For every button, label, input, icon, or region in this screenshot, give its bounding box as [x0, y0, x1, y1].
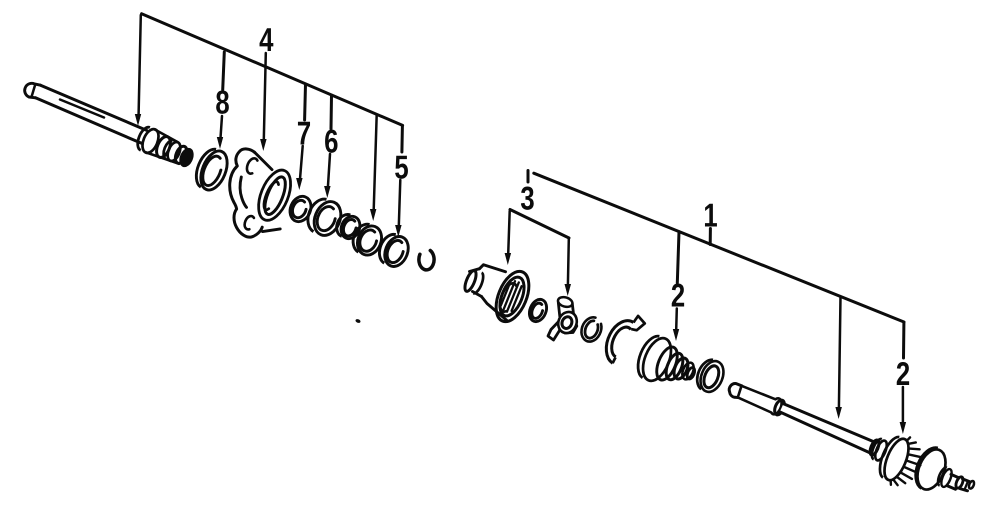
- housing bore inner C: [496, 281, 516, 313]
- axle bar left face: [738, 386, 742, 398]
- damper cluster bottom outline: [146, 152, 179, 163]
- spacer ring: [349, 221, 386, 259]
- washer: [333, 212, 363, 242]
- threaded tip top: [963, 479, 970, 482]
- right callout: tick above label 3: [527, 171, 530, 183]
- stub shaft bottom: [948, 486, 956, 489]
- leader line to label 6: [330, 95, 334, 129]
- stub ring: [954, 476, 964, 489]
- leader line to label 8: [223, 52, 225, 90]
- snap ring 5: [375, 231, 412, 270]
- spider snap ring: [578, 314, 605, 344]
- housing splines: [500, 279, 523, 313]
- shaft tip cap: [25, 83, 41, 97]
- axle bar wide section: [738, 386, 782, 415]
- boot ridge 2: [663, 351, 686, 382]
- leader line to label 7: [303, 84, 307, 120]
- flange to hub top edge: [255, 152, 272, 169]
- outer joint tooth band: [875, 434, 913, 484]
- joint neck ring: [936, 466, 954, 488]
- leader from diagonal to left label 2: [677, 232, 679, 283]
- arrow from bracket to CV housing: [508, 211, 510, 254]
- shaft tip step: [32, 85, 36, 97]
- long diagonal leader for label 1: [534, 173, 904, 322]
- bearing ring 8: [191, 145, 232, 193]
- boot ridge 3: [671, 356, 690, 381]
- arrow from diagonal to axle bar: [839, 297, 841, 408]
- flange plate outline: [230, 149, 262, 237]
- flange hub bore: [261, 174, 290, 217]
- arrow from 6 to ring: [328, 154, 330, 187]
- flange top ear hole: [245, 157, 258, 175]
- flange bore inner C: [261, 180, 279, 211]
- housing stub lip: [473, 273, 485, 295]
- joint collar: [868, 439, 880, 456]
- seal ring 7: [286, 193, 314, 225]
- shaft dynamic damper ring 2: [154, 135, 173, 160]
- boot ridge 1: [653, 344, 682, 383]
- label 2 (outer joint): [897, 362, 909, 385]
- housing mouth: [490, 267, 536, 327]
- flange hub face: [252, 166, 297, 225]
- leader from diagonal end to right label 2: [902, 323, 905, 359]
- stub shaft top: [951, 474, 959, 477]
- label 2 (boot): [672, 283, 684, 306]
- housing top edge: [480, 265, 506, 272]
- boot band clamp: [600, 309, 646, 369]
- outer joint ball dome: [910, 443, 952, 494]
- arrow from 4 to flange: [264, 53, 266, 140]
- housing bottom edge: [482, 297, 508, 322]
- label 3: [521, 186, 534, 209]
- tooth band ribs: [889, 437, 928, 493]
- flange plate inner edge: [240, 177, 246, 207]
- boot clamp (small, coil): [693, 356, 728, 395]
- tick from label 1 to diagonal: [709, 229, 712, 245]
- joint bell ring: [869, 437, 889, 462]
- damper cluster top outline: [155, 130, 178, 142]
- c-clip: [419, 251, 434, 270]
- label 4: [260, 28, 274, 51]
- arrow from diagonal to spacer ring: [374, 115, 377, 210]
- axle collar ring: [773, 399, 787, 417]
- tripod joint body: [548, 303, 577, 341]
- label 8: [216, 90, 229, 113]
- label 1: [705, 204, 717, 227]
- arrow from 7 to ring: [300, 146, 303, 179]
- shaft splined dark tip: [173, 145, 195, 168]
- shaft highlight line: [60, 100, 104, 118]
- axle bar (long): [780, 404, 874, 453]
- arrow from 2 to boot: [675, 309, 678, 331]
- label 5: [395, 156, 408, 179]
- axle bar tip: [729, 384, 742, 398]
- CV joint housing (part 3) body fill: [470, 265, 526, 322]
- stray dot: [355, 318, 361, 323]
- housing stub top edge: [470, 269, 480, 272]
- thread line: [965, 481, 968, 489]
- housing stub bottom edge: [473, 292, 482, 297]
- inner joint ring: [526, 297, 549, 324]
- left callout diagonal (group 4/5 leader): [142, 14, 403, 126]
- tripod tube opening: [557, 296, 574, 309]
- arrow from 8 to ring: [221, 116, 223, 138]
- bearing 6: [303, 195, 346, 239]
- arrow to left axle shaft: [139, 15, 141, 114]
- arrow from 2 to outer joint: [902, 387, 905, 423]
- flange bottom ear hole: [243, 215, 254, 230]
- shaft dynamic damper ring 1: [135, 125, 162, 155]
- threaded tip bottom: [960, 489, 968, 491]
- boot small end: [680, 361, 697, 382]
- leader from diagonal end to label 5: [400, 126, 404, 152]
- shaft dynamic damper ring 3: [161, 139, 183, 163]
- axle shaft (left, inner): [41, 85, 147, 130]
- arrow from 5 to snap ring: [399, 180, 401, 226]
- housing stub cap: [463, 269, 479, 292]
- label 7: [298, 122, 310, 145]
- tip end: [968, 480, 975, 489]
- housing bore: [495, 274, 529, 320]
- label 3 bracket line: [510, 210, 569, 239]
- label 6: [325, 129, 337, 152]
- arrow from bracket to tripod joint: [567, 239, 570, 285]
- flange to hub bottom edge: [263, 229, 281, 232]
- tripod boss: [555, 309, 580, 336]
- CV boot big end: [632, 332, 676, 385]
- bearing support flange (part 4) white body: [230, 149, 285, 237]
